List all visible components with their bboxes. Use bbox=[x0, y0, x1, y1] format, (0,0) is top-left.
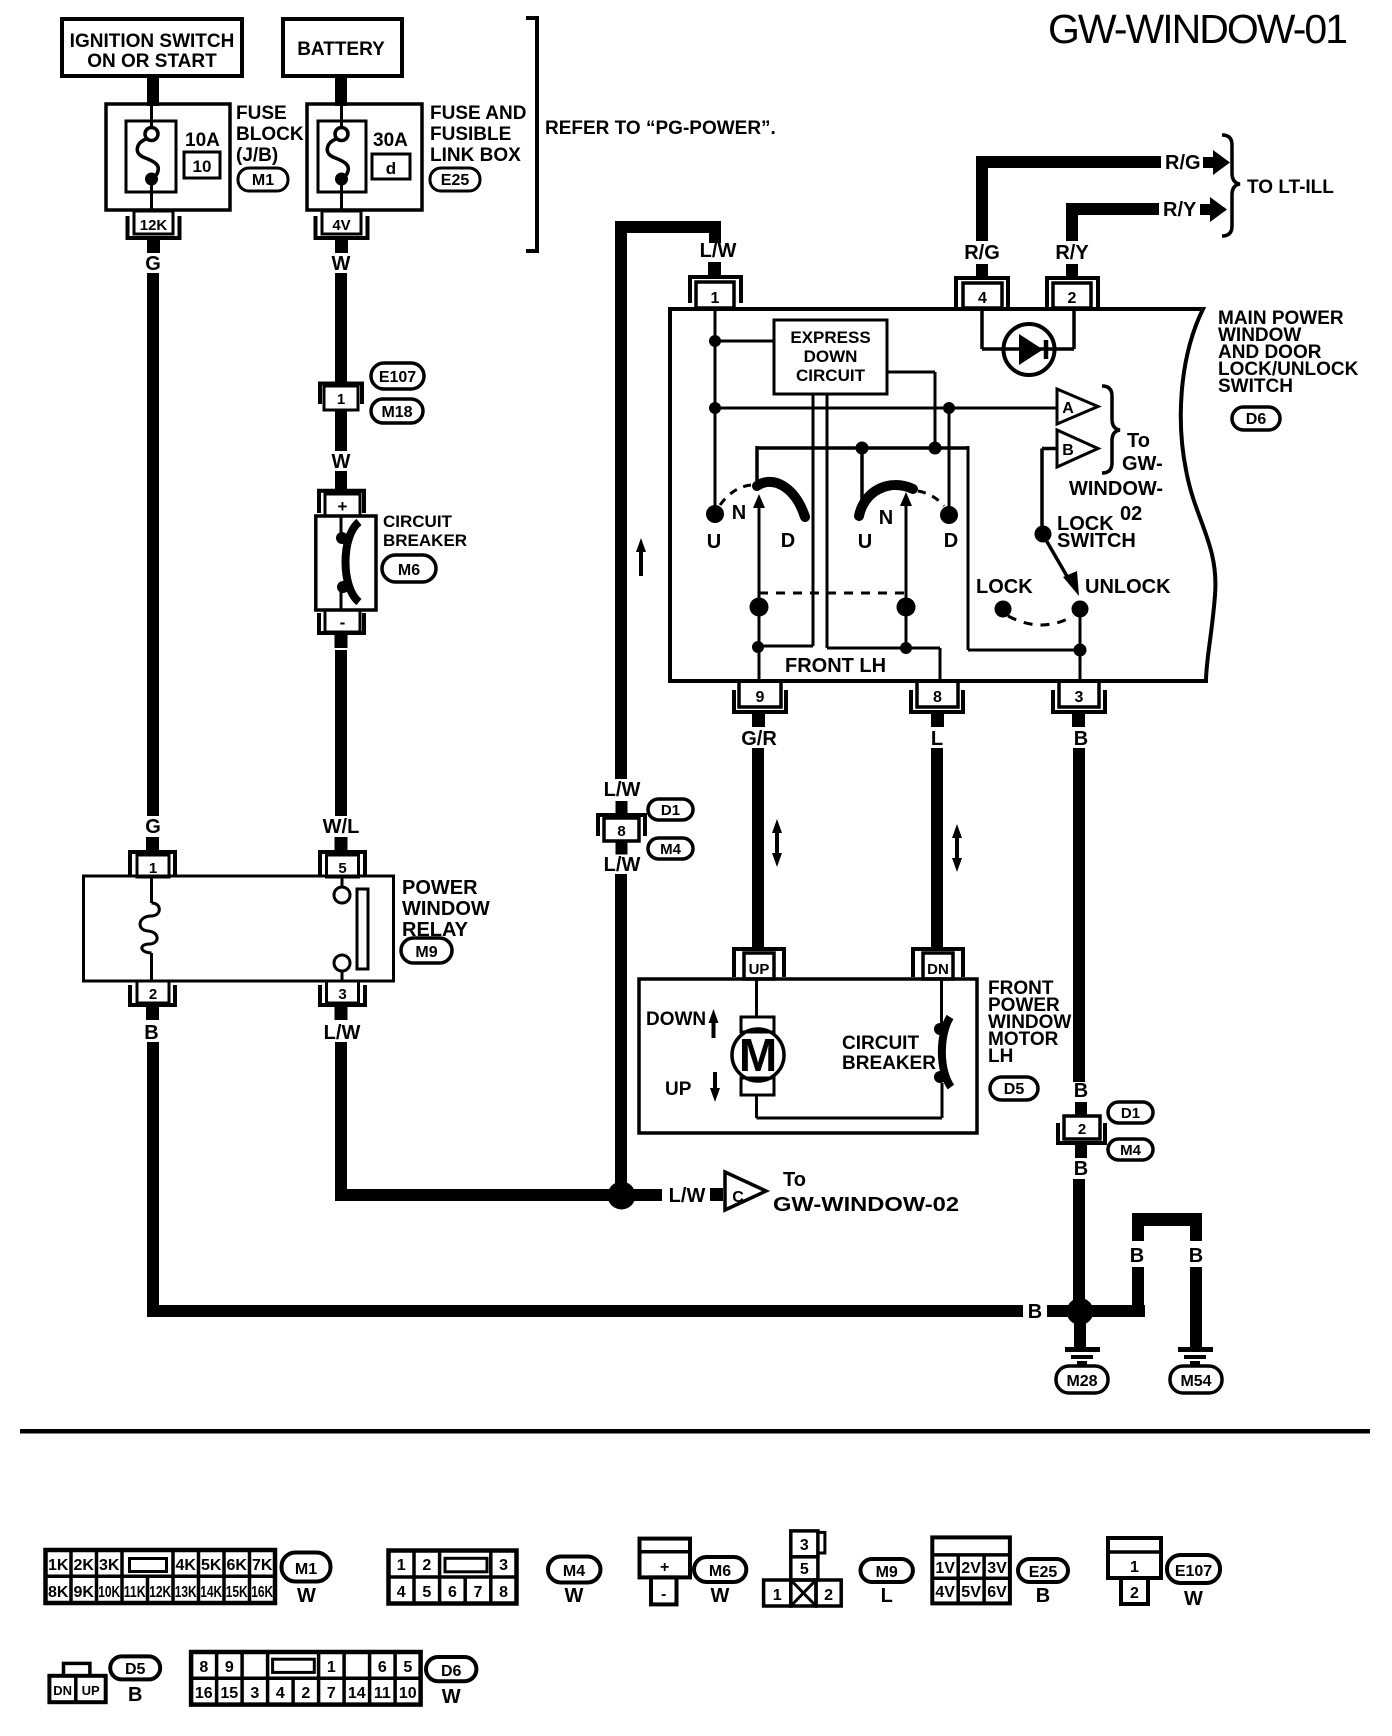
svg-text:W: W bbox=[442, 1686, 461, 1708]
svg-text:-: - bbox=[661, 1586, 666, 1603]
ignition switch box bbox=[62, 19, 242, 76]
svg-text:D: D bbox=[944, 530, 958, 552]
svg-text:2: 2 bbox=[149, 986, 157, 1003]
diode D6 bbox=[1004, 324, 1055, 375]
svg-text:R/Y: R/Y bbox=[1163, 199, 1197, 221]
wire G vertical bbox=[147, 273, 159, 816]
svg-text:C: C bbox=[732, 1189, 744, 1206]
svg-text:4V: 4V bbox=[935, 1584, 955, 1601]
svg-text:16K: 16K bbox=[251, 1584, 273, 1601]
connector oval M6 bottom bbox=[694, 1557, 746, 1607]
wire label L/W above 8 bbox=[604, 779, 641, 801]
svg-text:B: B bbox=[1074, 1158, 1088, 1180]
arrow R/G to LT-ILL bbox=[1203, 150, 1230, 175]
label CIRCUIT BREAKER M6 bbox=[383, 512, 467, 550]
svg-text:10: 10 bbox=[193, 157, 212, 176]
connector 8 D1/M4 bbox=[598, 801, 645, 855]
arrow up beside L/W bbox=[636, 538, 646, 576]
wire label R/Y pin2 bbox=[1055, 242, 1089, 264]
connector pinout M1 bbox=[46, 1550, 276, 1603]
relay pin 2 bbox=[130, 981, 175, 1020]
svg-text:9: 9 bbox=[756, 689, 765, 706]
connector pinout E25 bbox=[932, 1537, 1010, 1603]
svg-text:M4: M4 bbox=[563, 1563, 585, 1580]
dashed arc lock-unlock bbox=[1008, 616, 1073, 625]
svg-text:FRONT LH: FRONT LH bbox=[785, 655, 886, 677]
connector oval E25 bbox=[430, 168, 480, 191]
stub before C triangle bbox=[710, 1188, 723, 1201]
svg-text:B: B bbox=[1062, 442, 1074, 459]
brace to LT-ILL bbox=[1222, 135, 1240, 236]
connector pinout D5 bbox=[49, 1663, 105, 1702]
rocker1 arc bbox=[757, 482, 805, 517]
wire L/W top corner bbox=[615, 221, 721, 243]
wire label L/W below 8 bbox=[604, 854, 641, 876]
connector pinout M9 bbox=[764, 1531, 842, 1606]
svg-text:2: 2 bbox=[824, 1587, 833, 1604]
rail right corner to lock bbox=[968, 446, 1080, 650]
svg-text:DOWN: DOWN bbox=[804, 347, 858, 366]
wire L vertical bbox=[931, 748, 943, 948]
pin 12K bbox=[128, 211, 180, 253]
svg-text:D6: D6 bbox=[1246, 411, 1267, 428]
svg-text:To: To bbox=[783, 1169, 806, 1191]
rocker1 labels bbox=[707, 502, 795, 553]
wire R/G top corner bbox=[976, 156, 1161, 241]
motor circuit breaker symbol bbox=[934, 979, 951, 1087]
fuse block (J/B) box bbox=[106, 104, 230, 210]
svg-text:3: 3 bbox=[800, 1537, 809, 1554]
label FRONT LH bbox=[785, 655, 886, 677]
wire L/W lower vertical bbox=[615, 874, 627, 1196]
svg-text:3V: 3V bbox=[987, 1560, 1007, 1577]
svg-text:1K: 1K bbox=[48, 1557, 69, 1574]
svg-text:11K: 11K bbox=[124, 1584, 146, 1601]
svg-text:M28: M28 bbox=[1066, 1373, 1097, 1390]
connector oval D5 bottom bbox=[110, 1656, 160, 1706]
ground M54 bbox=[1170, 1347, 1222, 1393]
svg-text:4V: 4V bbox=[332, 217, 350, 234]
wire label B above 2 bbox=[1074, 1080, 1088, 1102]
svg-text:DN: DN bbox=[53, 1683, 72, 1698]
svg-text:7: 7 bbox=[474, 1584, 483, 1601]
ground M28 bbox=[1056, 1347, 1108, 1393]
fuse number box 10 bbox=[184, 152, 220, 178]
wire W below connector bbox=[335, 410, 347, 451]
node rail rocker2 bbox=[856, 442, 869, 511]
svg-text:8K: 8K bbox=[48, 1584, 69, 1601]
wire label L bbox=[931, 728, 943, 750]
wire label G/R bbox=[741, 728, 777, 750]
svg-text:UP: UP bbox=[665, 1079, 692, 1100]
svg-text:R/G: R/G bbox=[964, 242, 1000, 264]
connector oval D5 bbox=[990, 1077, 1038, 1100]
node pin1-triangleA rail bbox=[709, 402, 1056, 414]
svg-text:8: 8 bbox=[499, 1584, 508, 1601]
svg-text:WINDOW: WINDOW bbox=[402, 898, 490, 920]
svg-text:12K: 12K bbox=[140, 217, 168, 234]
label REFER TO PG-POWER bbox=[545, 118, 776, 139]
svg-text:6K: 6K bbox=[226, 1557, 247, 1574]
svg-text:6: 6 bbox=[378, 1659, 387, 1676]
svg-text:W: W bbox=[1184, 1588, 1203, 1610]
svg-text:EXPRESS: EXPRESS bbox=[790, 328, 870, 347]
svg-text:-: - bbox=[340, 613, 346, 632]
svg-text:M1: M1 bbox=[252, 172, 274, 189]
svg-text:M: M bbox=[739, 1029, 777, 1081]
svg-text:D1: D1 bbox=[1121, 1105, 1140, 1122]
svg-text:M6: M6 bbox=[398, 562, 420, 579]
svg-text:W: W bbox=[297, 1585, 316, 1607]
label To GW-WINDOW-02 bbox=[773, 1169, 959, 1216]
svg-text:U: U bbox=[858, 531, 872, 553]
lock contact dot bbox=[995, 601, 1012, 618]
svg-text:8: 8 bbox=[617, 823, 625, 840]
rocker2 wire to pin8 bbox=[906, 648, 940, 681]
wire label B relay bbox=[144, 1022, 158, 1044]
svg-text:CIRCUIT: CIRCUIT bbox=[842, 1033, 919, 1054]
svg-text:8: 8 bbox=[933, 689, 942, 706]
connector oval M9 bottom bbox=[861, 1559, 913, 1607]
svg-text:M9: M9 bbox=[876, 1564, 898, 1581]
label R/Y arrow row bbox=[1163, 199, 1197, 221]
svg-text:d: d bbox=[386, 159, 396, 178]
svg-text:W/L: W/L bbox=[323, 816, 360, 838]
relay pin 1 bbox=[130, 837, 175, 877]
connector oval M1 bbox=[238, 168, 288, 191]
svg-text:M18: M18 bbox=[381, 404, 412, 421]
wire label W/L bbox=[323, 816, 360, 838]
svg-text:R/Y: R/Y bbox=[1055, 242, 1089, 264]
rocker2 node small bbox=[900, 642, 912, 654]
svg-text:13K: 13K bbox=[175, 1584, 197, 1601]
svg-text:1: 1 bbox=[397, 1557, 406, 1574]
rocker1 node small bbox=[752, 641, 764, 653]
wire label W bbox=[332, 253, 351, 275]
svg-text:REFER TO “PG-POWER”.: REFER TO “PG-POWER”. bbox=[545, 118, 776, 139]
svg-text:+: + bbox=[338, 497, 348, 516]
svg-text:L/W: L/W bbox=[700, 240, 737, 262]
label CIRCUIT BREAKER motor bbox=[842, 1033, 936, 1074]
svg-text:4K: 4K bbox=[175, 1557, 196, 1574]
relay pin 5 bbox=[320, 837, 365, 877]
svg-text:U: U bbox=[707, 531, 721, 553]
switch pin 4 bbox=[956, 264, 1008, 308]
connector oval E25 bottom bbox=[1018, 1559, 1068, 1607]
svg-text:L/W: L/W bbox=[604, 854, 641, 876]
svg-text:B: B bbox=[144, 1022, 158, 1044]
rocker2 dashed arc bbox=[918, 491, 944, 506]
svg-text:7K: 7K bbox=[252, 1557, 273, 1574]
svg-text:ON OR START: ON OR START bbox=[87, 51, 217, 72]
title GW-WINDOW-01 bbox=[1048, 6, 1348, 52]
svg-text:B: B bbox=[1036, 1585, 1050, 1607]
svg-text:W: W bbox=[565, 1585, 584, 1607]
arrow up-down G/R bbox=[772, 819, 782, 867]
rocker1 node big bbox=[750, 598, 769, 617]
connector oval M1 bottom bbox=[282, 1553, 331, 1608]
battery box bbox=[283, 19, 402, 76]
motor pin UP bbox=[734, 949, 784, 979]
switch pin 9 bbox=[734, 681, 786, 727]
svg-text:TO LT-ILL: TO LT-ILL bbox=[1247, 177, 1334, 198]
label LOCK SWITCH bbox=[1057, 513, 1136, 552]
svg-text:02: 02 bbox=[1120, 503, 1142, 525]
node unlock-pin3 bbox=[1074, 644, 1087, 657]
svg-text:G: G bbox=[145, 816, 161, 838]
svg-text:N: N bbox=[879, 507, 893, 529]
svg-text:1: 1 bbox=[711, 290, 720, 307]
diode wires bbox=[982, 309, 1074, 349]
svg-text:3: 3 bbox=[499, 1557, 508, 1574]
svg-text:1: 1 bbox=[1130, 1559, 1139, 1576]
switch pin 3 bbox=[1053, 681, 1105, 727]
svg-text:B: B bbox=[1028, 1301, 1042, 1323]
svg-text:3: 3 bbox=[338, 986, 346, 1003]
svg-text:LH: LH bbox=[988, 1046, 1013, 1067]
svg-text:UP: UP bbox=[82, 1683, 100, 1698]
svg-text:SWITCH: SWITCH bbox=[1057, 530, 1136, 552]
connector oval M18 bbox=[371, 399, 423, 423]
svg-text:M9: M9 bbox=[415, 944, 437, 961]
connector oval E107 bbox=[371, 363, 424, 389]
svg-text:N: N bbox=[732, 502, 746, 524]
svg-text:16: 16 bbox=[195, 1685, 213, 1702]
svg-text:2: 2 bbox=[301, 1685, 310, 1702]
svg-text:G: G bbox=[145, 253, 161, 275]
svg-text:2K: 2K bbox=[73, 1557, 94, 1574]
wire B stub to junction bbox=[1047, 1305, 1069, 1317]
svg-text:M4: M4 bbox=[1120, 1142, 1141, 1159]
connector pinout D6 bbox=[191, 1652, 421, 1705]
gate triangle B bbox=[1057, 430, 1098, 467]
svg-text:2: 2 bbox=[1068, 290, 1077, 307]
svg-text:4: 4 bbox=[397, 1584, 406, 1601]
svg-text:LOCK: LOCK bbox=[976, 576, 1033, 598]
fusible link box E25 bbox=[307, 104, 422, 210]
svg-text:2: 2 bbox=[422, 1557, 431, 1574]
connector pinout E107 bbox=[1108, 1538, 1161, 1604]
connector oval M6 bbox=[382, 555, 436, 582]
wire B pin3 vertical bbox=[1073, 748, 1085, 1082]
gate triangle A bbox=[1057, 389, 1098, 424]
junction dot B ground bbox=[1067, 1298, 1094, 1325]
express output wire left bbox=[759, 394, 813, 646]
svg-text:10A: 10A bbox=[185, 130, 220, 151]
connector oval M4 upper bbox=[648, 838, 693, 859]
svg-text:10: 10 bbox=[399, 1685, 417, 1702]
label FRONT POWER WINDOW MOTOR LH bbox=[988, 978, 1071, 1067]
svg-text:M54: M54 bbox=[1180, 1373, 1211, 1390]
svg-text:FUSE: FUSE bbox=[236, 103, 287, 124]
express down circuit box bbox=[774, 320, 887, 394]
lock switch pivot bbox=[1035, 526, 1052, 543]
svg-text:D6: D6 bbox=[441, 1663, 462, 1680]
switch pin 1 bbox=[690, 277, 741, 308]
svg-text:W: W bbox=[332, 253, 351, 275]
svg-text:L/W: L/W bbox=[669, 1185, 706, 1207]
connector oval D1 lower bbox=[1108, 1102, 1153, 1123]
wire B bottom horizontal bbox=[147, 1305, 1023, 1317]
wire W vertical upper bbox=[335, 273, 347, 382]
connector 1 E107/M18 bbox=[320, 384, 362, 411]
svg-text:1: 1 bbox=[149, 860, 157, 877]
lock switch wire from B bbox=[1042, 449, 1057, 529]
arrow up-down L bbox=[952, 824, 962, 872]
wire junction to M28 ground bbox=[1074, 1322, 1086, 1347]
node pin1-express bbox=[709, 335, 774, 347]
svg-text:L: L bbox=[881, 1585, 893, 1607]
svg-text:W: W bbox=[711, 1585, 730, 1607]
svg-text:M4: M4 bbox=[660, 841, 681, 858]
wire stub to switch pin 1 bbox=[708, 262, 721, 275]
svg-text:3K: 3K bbox=[99, 1557, 120, 1574]
rocker1 wiper arrow bbox=[753, 494, 765, 682]
unlock contact dot bbox=[1072, 601, 1089, 618]
node rail express bbox=[929, 442, 942, 455]
svg-text:6V: 6V bbox=[987, 1584, 1007, 1601]
svg-text:B: B bbox=[128, 1684, 142, 1706]
express output to top rail bbox=[887, 372, 935, 448]
label UP arrow bbox=[665, 1072, 720, 1102]
svg-text:E107: E107 bbox=[1175, 1563, 1212, 1580]
svg-text:1: 1 bbox=[773, 1587, 782, 1604]
label DOWN arrow bbox=[646, 1009, 719, 1038]
svg-text:BLOCK: BLOCK bbox=[236, 124, 304, 145]
circuit breaker plus pin bbox=[319, 491, 364, 516]
label FUSE AND FUSIBLE LINK BOX bbox=[430, 103, 526, 166]
svg-text:1: 1 bbox=[327, 1659, 336, 1676]
svg-text:(J/B): (J/B) bbox=[236, 145, 278, 166]
svg-text:6: 6 bbox=[448, 1584, 457, 1601]
connector pinout M4 bbox=[389, 1551, 517, 1604]
wire label R/G pin4 bbox=[964, 242, 1000, 264]
label MAIN POWER WINDOW AND DOOR LOCK/UNLOCK SWITCH bbox=[1218, 308, 1359, 397]
svg-text:2: 2 bbox=[1130, 1585, 1139, 1602]
svg-text:UP: UP bbox=[749, 961, 770, 978]
circuit breaker M6 body bbox=[316, 516, 376, 610]
svg-text:+: + bbox=[660, 1559, 669, 1576]
svg-text:3: 3 bbox=[1075, 689, 1084, 706]
svg-text:5: 5 bbox=[800, 1561, 809, 1578]
relay pin 3 bbox=[320, 981, 365, 1020]
wire label B right leg bbox=[1189, 1245, 1203, 1267]
top rail bbox=[757, 446, 968, 485]
svg-text:5: 5 bbox=[403, 1659, 412, 1676]
arrow R/Y to LT-ILL bbox=[1200, 197, 1227, 222]
svg-text:2V: 2V bbox=[961, 1560, 981, 1577]
svg-text:D: D bbox=[781, 530, 795, 552]
wire B inverted U bbox=[1132, 1213, 1202, 1241]
svg-text:L: L bbox=[931, 728, 943, 750]
svg-text:LINK BOX: LINK BOX bbox=[430, 145, 521, 166]
wire label B below 2 bbox=[1074, 1158, 1088, 1180]
refer bracket bbox=[526, 18, 537, 251]
connector oval M4 bottom bbox=[548, 1557, 601, 1608]
svg-text:SWITCH: SWITCH bbox=[1218, 376, 1293, 397]
svg-text:L/W: L/W bbox=[324, 1022, 361, 1044]
label R/G arrow row bbox=[1165, 152, 1201, 174]
separator line bbox=[20, 1429, 1370, 1434]
relay contact bbox=[334, 877, 368, 980]
fuse label 30A bbox=[373, 130, 408, 151]
svg-text:W: W bbox=[332, 451, 351, 473]
rocker2 node big bbox=[897, 598, 916, 617]
svg-text:DN: DN bbox=[927, 961, 949, 978]
svg-text:L/W: L/W bbox=[604, 779, 641, 801]
svg-text:8: 8 bbox=[199, 1659, 208, 1676]
svg-text:B: B bbox=[1189, 1245, 1203, 1267]
wire B left vertical bbox=[147, 1042, 159, 1317]
svg-text:GW-WINDOW-01: GW-WINDOW-01 bbox=[1048, 6, 1348, 52]
wire L/W from relay pin3 bbox=[335, 1042, 611, 1201]
wire B branch right bbox=[1092, 1267, 1145, 1317]
connector oval M4 lower bbox=[1108, 1139, 1153, 1160]
svg-text:GW-WINDOW-02: GW-WINDOW-02 bbox=[773, 1194, 959, 1216]
svg-text:To: To bbox=[1127, 430, 1150, 452]
wire label B bottom bbox=[1028, 1301, 1042, 1323]
svg-text:M1: M1 bbox=[295, 1561, 317, 1578]
svg-text:E25: E25 bbox=[1029, 1564, 1058, 1581]
label POWER WINDOW RELAY bbox=[402, 877, 490, 941]
svg-text:B: B bbox=[1130, 1245, 1144, 1267]
off-page triangle C bbox=[725, 1172, 766, 1210]
connector oval D1 upper bbox=[648, 799, 693, 820]
wire label L/W top bbox=[700, 240, 737, 262]
svg-text:CIRCUIT: CIRCUIT bbox=[383, 512, 453, 531]
svg-text:14K: 14K bbox=[200, 1584, 222, 1601]
svg-text:10K: 10K bbox=[98, 1584, 120, 1601]
wire G/R vertical bbox=[752, 748, 764, 948]
wire B to ground junction bbox=[1073, 1179, 1085, 1301]
switch pin 8 bbox=[911, 681, 963, 727]
svg-text:R/G: R/G bbox=[1165, 152, 1201, 174]
svg-text:3: 3 bbox=[250, 1685, 259, 1702]
svg-text:1V: 1V bbox=[935, 1560, 955, 1577]
wire W to breaker bbox=[335, 471, 347, 490]
connector 2 D1/M4 bbox=[1058, 1102, 1105, 1158]
rocker2 labels bbox=[858, 507, 958, 553]
svg-text:2: 2 bbox=[1078, 1121, 1086, 1138]
wire L/W center vertical bbox=[615, 233, 627, 779]
svg-text:9: 9 bbox=[225, 1659, 234, 1676]
svg-text:4: 4 bbox=[978, 290, 987, 307]
svg-text:BATTERY: BATTERY bbox=[297, 39, 385, 60]
svg-text:FUSE AND: FUSE AND bbox=[430, 103, 526, 124]
fuse 10A symbol bbox=[126, 104, 176, 210]
label TO LT-ILL bbox=[1247, 177, 1334, 198]
svg-text:15: 15 bbox=[220, 1685, 238, 1702]
svg-text:15K: 15K bbox=[226, 1584, 248, 1601]
relay coil bbox=[140, 877, 159, 980]
mechanical dashed link bbox=[759, 592, 906, 595]
svg-text:14: 14 bbox=[348, 1685, 366, 1702]
wire label B left leg bbox=[1130, 1245, 1144, 1267]
fuse label 10A bbox=[185, 130, 220, 151]
svg-text:7: 7 bbox=[327, 1685, 336, 1702]
label To GW-WINDOW-02 right bbox=[1069, 430, 1163, 525]
rocker2 wiper arrow bbox=[900, 492, 912, 648]
connector pinout M6 bbox=[640, 1539, 691, 1605]
wire label L/W relay bbox=[324, 1022, 361, 1044]
svg-text:1: 1 bbox=[337, 391, 345, 408]
svg-text:D1: D1 bbox=[661, 802, 680, 819]
connector oval M9 bbox=[401, 938, 452, 963]
circuit breaker minus pin bbox=[319, 610, 364, 648]
wire label G bbox=[145, 253, 161, 275]
svg-text:E107: E107 bbox=[379, 369, 416, 386]
wire B to M54 ground bbox=[1190, 1267, 1202, 1347]
